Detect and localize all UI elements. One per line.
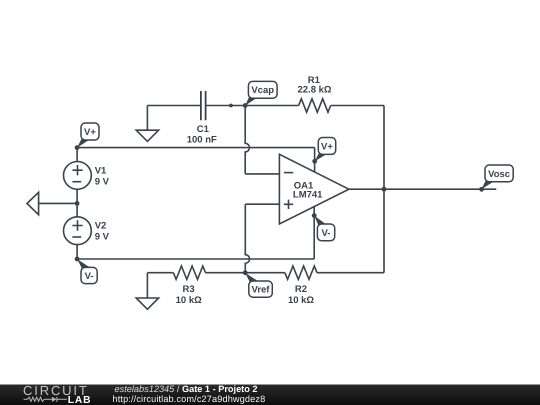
wire: top ground branch horizontal (C1 left lead) — [147, 105, 201, 107]
svg-text:V1: V1 — [95, 165, 107, 176]
junction dot at Vosc tap — [479, 187, 484, 192]
wire: ground stub top — [146, 106, 148, 131]
wire: op-amp V- supply stub — [313, 206, 315, 259]
svg-text:R3: R3 — [183, 284, 195, 295]
wire: V2 bottom to V- junction — [76, 245, 78, 259]
svg-text:Vref: Vref — [252, 285, 271, 296]
node label box V- (bottom left) — [81, 267, 97, 283]
wire: op-amp output to Vosc — [349, 188, 496, 190]
op-amp minus input symbol — [284, 172, 293, 174]
svg-text:V-: V- — [322, 228, 331, 239]
svg-text:9 V: 9 V — [95, 176, 110, 187]
wire: non-inverting input (from op-amp plus) — [245, 203, 279, 205]
ground (top, near C1) — [136, 130, 158, 141]
wire: V- rail horizontal — [77, 258, 314, 260]
wire: R3 to bottom ground — [147, 272, 173, 274]
junction dot at op-amp V+ pin — [312, 159, 317, 164]
svg-text:Vosc: Vosc — [488, 169, 510, 180]
capacitor C1 plates — [201, 91, 206, 120]
op-amp OA1 triangle — [279, 154, 349, 224]
wire: right vertical (R1/R2 to output) — [383, 106, 385, 273]
pointer wedge of Vref label — [245, 273, 257, 284]
svg-text:22.8 kΩ: 22.8 kΩ — [297, 85, 331, 96]
wire: Vcap node to R1 — [245, 105, 298, 107]
voltage source V2 — [64, 217, 92, 245]
V2 minus symbol — [72, 236, 81, 238]
node label box V- (op-amp supply) — [317, 224, 334, 241]
node label box Vcap — [248, 81, 277, 98]
junction dot at op-amp V- pin — [312, 213, 317, 218]
node label box Vref — [249, 281, 272, 297]
logo diode triangle — [52, 397, 57, 402]
pointer wedge of Vcap label — [245, 95, 257, 106]
node label box V+ (left) — [81, 123, 99, 140]
resistor R1 zigzag — [299, 99, 331, 112]
resistor R2 zigzag — [285, 266, 317, 279]
junction dot at V+ left node — [75, 145, 80, 150]
svg-text:Vcap: Vcap — [251, 85, 274, 96]
pointer wedge of V+ left label — [77, 137, 89, 148]
svg-text:100 nF: 100 nF — [187, 134, 217, 145]
voltage source V1 — [64, 162, 92, 190]
wire: left arrow ground branch — [39, 202, 78, 204]
svg-text:C1: C1 — [197, 124, 210, 135]
resistor R3 zigzag — [173, 266, 205, 279]
wire: plus-input vertical with hop over V- rail — [245, 204, 249, 273]
svg-text:10 kΩ: 10 kΩ — [176, 295, 202, 306]
pointer wedge of op-amp V+ label — [315, 151, 327, 161]
junction dot at Vref node — [243, 270, 248, 275]
V2 plus symbol — [72, 220, 82, 230]
svg-text:LAB: LAB — [68, 395, 92, 405]
V1 minus symbol — [72, 181, 81, 183]
svg-text:10 kΩ: 10 kΩ — [288, 295, 314, 306]
svg-text:V-: V- — [85, 271, 94, 282]
svg-text:V+: V+ — [321, 141, 333, 152]
wire: bottom right segment to R2 — [317, 272, 384, 274]
svg-text:LM741: LM741 — [293, 190, 323, 201]
wire: R1 to right vertical — [331, 105, 384, 107]
junction dot at C1 right lead — [229, 104, 233, 108]
svg-text:R2: R2 — [295, 284, 307, 295]
svg-text:http://circuitlab.com/c27a9dhw: http://circuitlab.com/c27a9dhwgdez8 — [113, 394, 266, 404]
junction dot at V- left node — [75, 257, 80, 262]
wire: Vref junction to R3 — [206, 272, 246, 274]
ground (bottom, near R3) — [136, 298, 158, 309]
footer bar — [0, 385, 540, 405]
wire: C1 right lead to Vcap junction — [206, 105, 246, 107]
svg-text:V+: V+ — [84, 127, 96, 138]
logo wire graphic with resistor and diode — [24, 397, 67, 402]
node label box Vosc — [485, 165, 513, 182]
node label box V+ (op-amp supply) — [318, 138, 335, 155]
wire: left rail V1 top lead — [76, 148, 78, 162]
wire: ground stub bottom — [146, 273, 148, 298]
pointer wedge of V- bottom label — [77, 259, 89, 270]
svg-text:9 V: 9 V — [95, 232, 110, 243]
junction dot at Vcap node — [243, 103, 248, 108]
junction dot at op-amp output — [382, 187, 387, 192]
wire: V+ rail horizontal (left junction to op-amp supply) — [77, 147, 315, 149]
V1 plus symbol — [72, 165, 82, 175]
wire: V1 bottom to V2 top — [76, 189, 78, 217]
svg-text:estelabs12345 / Gate 1 - Proje: estelabs12345 / Gate 1 - Projeto 2 — [115, 384, 258, 394]
pointer wedge of Vosc label — [481, 179, 493, 190]
wire: R2 to Vref junction — [245, 272, 285, 274]
pointer wedge of op-amp V- label — [314, 216, 326, 227]
wire: op-amp V+ supply stub — [314, 148, 316, 172]
op-amp plus input symbol — [284, 200, 293, 209]
svg-text:V2: V2 — [95, 221, 107, 232]
wire: inverting input (to op-amp minus) — [245, 173, 279, 175]
ground (left, rotated) — [27, 192, 39, 214]
junction dot at left arrow node — [75, 201, 80, 206]
wire: Vcap vertical with hop over V+ rail — [245, 106, 249, 174]
